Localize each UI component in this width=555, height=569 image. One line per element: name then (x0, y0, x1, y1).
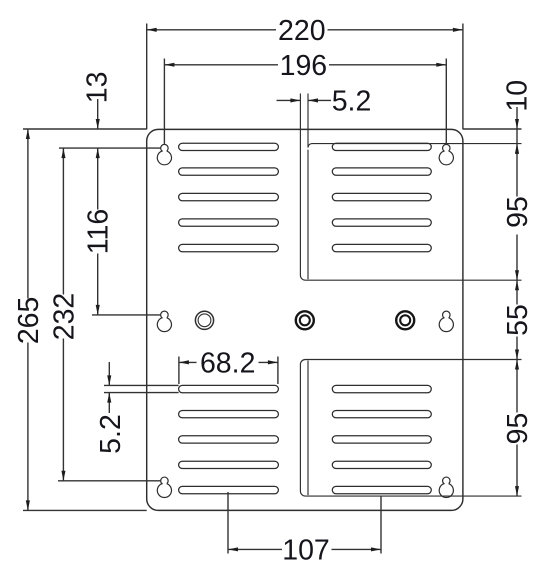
keyhole bottom-right (439, 477, 453, 497)
svg-text:10: 10 (501, 80, 533, 112)
keyhole top-left (157, 144, 171, 164)
ext line plate left extended up (146, 24, 148, 130)
vent slot top-right row 3 (332, 193, 431, 200)
vent slot bottom-left row 3 (179, 436, 279, 443)
svg-text:95: 95 (502, 413, 534, 445)
hole center (bold double ring) (296, 311, 314, 329)
ext line 107 right (380, 496, 382, 553)
dim 196 line (164, 64, 278, 66)
ext line mid keyhole center extended left (92, 314, 161, 316)
bottom-right flange panel outline (300, 360, 521, 497)
dim 232 arrows (61, 148, 65, 158)
ext line keyhole right extended up (445, 59, 447, 145)
ext line plate top extended right (463, 128, 522, 130)
dim 5.2 bl tails (108, 362, 110, 385)
ext line bottom keyhole center extended left (58, 480, 161, 482)
ext line plate right extended up (462, 24, 464, 130)
top-right flange panel outline (300, 94, 521, 281)
dim 68.2 arrows (179, 360, 189, 364)
ext line 68.2 left (178, 357, 180, 385)
dim 116 line (97, 148, 99, 209)
keyhole mid-left (157, 311, 171, 331)
dim 232 line (62, 148, 64, 294)
svg-text:265: 265 (13, 297, 45, 345)
dim 220 arrows (147, 28, 157, 32)
keyhole mid-right (439, 311, 453, 331)
dim 5.2 bl arrows (107, 375, 111, 385)
ext line slot top edge for 5.2 (104, 384, 179, 386)
vent slot top-right row 4 (332, 219, 431, 226)
svg-text:107: 107 (282, 534, 330, 566)
dim 55 arrows (515, 280, 519, 290)
vent slot bottom-right row 4 (332, 461, 431, 468)
vent slot top-left row 5 (179, 244, 279, 251)
dim 68.2 line (179, 361, 197, 363)
vent slot bottom-left row 1 (179, 385, 279, 392)
dim 95 bottom arrows (515, 360, 519, 370)
dim 10 line (516, 107, 518, 144)
dim 55 line (516, 280, 518, 304)
vent slot top-left row 2 (179, 168, 279, 175)
keyhole top-right (439, 144, 453, 164)
dim 95 bottom line (516, 360, 518, 413)
dim 10 arrows (515, 119, 519, 129)
vent slot bottom-left row 4 (179, 461, 279, 468)
svg-text:55: 55 (502, 304, 534, 336)
svg-text:232: 232 (48, 293, 80, 341)
vent slot bottom-right row 5 (332, 486, 431, 493)
ext line 68.2 right (277, 357, 279, 385)
dim 95 top line (516, 144, 518, 197)
vent slot top-left row 4 (179, 219, 279, 226)
hole right (bold double ring) (396, 311, 414, 329)
keyhole bottom-left (157, 477, 171, 497)
vent slot top-right row 1 (332, 143, 431, 150)
svg-text:68.2: 68.2 (200, 347, 255, 379)
dim 5.2 top arrows (290, 98, 300, 102)
dim 265 line (27, 129, 29, 299)
dim 107 line (228, 548, 282, 550)
svg-text:5.2: 5.2 (95, 414, 127, 454)
vent slot bottom-right row 1 (332, 385, 431, 392)
vent slot bottom-right row 3 (332, 436, 431, 443)
vent slot bottom-left row 5 (179, 486, 279, 493)
dim 196 arrows (164, 63, 174, 67)
vent slot top-right row 5 (332, 244, 431, 251)
dim 95 top arrows (515, 144, 519, 154)
ext line keyhole left extended up (163, 59, 165, 145)
svg-text:116: 116 (83, 209, 115, 254)
vent slot top-right row 2 (332, 168, 431, 175)
vent slot bottom-left row 2 (179, 411, 279, 418)
svg-text:196: 196 (280, 50, 328, 82)
svg-text:95: 95 (502, 196, 534, 228)
dim 13 arrow (96, 119, 100, 129)
ext line plate top extended left (23, 128, 147, 130)
dim 116 arrows (96, 148, 100, 158)
svg-text:13: 13 (82, 72, 114, 104)
dim 107 arrows (228, 547, 238, 551)
vent slot top-left row 1 (179, 143, 279, 150)
vent slot top-left row 3 (179, 193, 279, 200)
vent slot bottom-right row 2 (332, 411, 431, 418)
dim 220 line (147, 29, 276, 31)
svg-text:5.2: 5.2 (332, 85, 372, 117)
mounting plate outline (220 x 265) (147, 129, 463, 510)
hole left (thin double ring) (195, 311, 213, 329)
dim 13 line (97, 99, 99, 129)
ext line plate bottom extended left (23, 509, 147, 511)
ext line top keyhole center extended left (59, 147, 161, 149)
svg-text:220: 220 (278, 15, 326, 47)
ext line 107 left (227, 492, 229, 554)
dim 5.2 top tails (277, 99, 301, 101)
ext line slot bottom edge for 5.2 (104, 392, 179, 394)
dim 265 arrows (26, 129, 30, 139)
